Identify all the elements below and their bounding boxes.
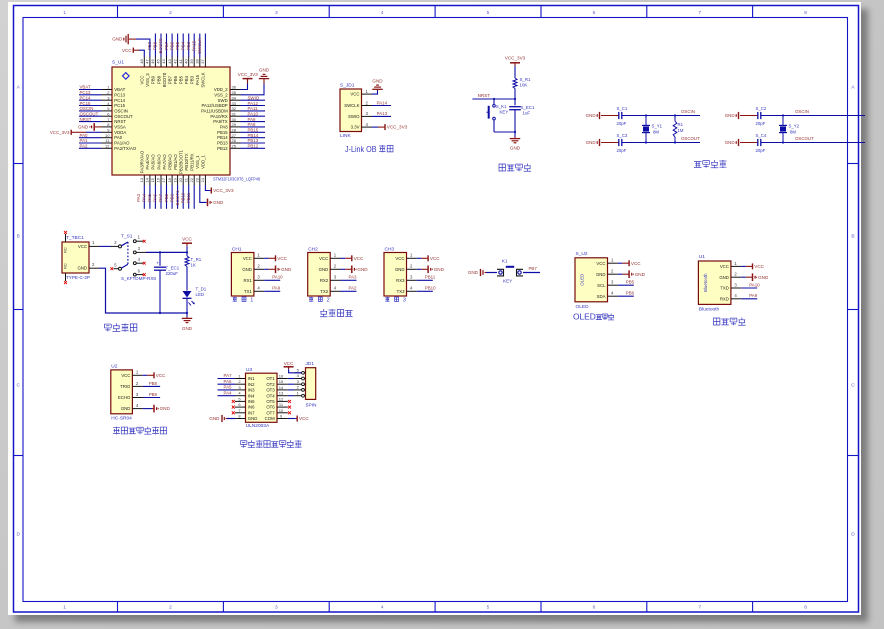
svg-text:PC14: PC14 [80, 95, 92, 100]
svg-text:GND: GND [259, 68, 270, 73]
svg-text:2: 2 [327, 297, 330, 303]
svg-text:2: 2 [334, 264, 337, 269]
svg-text:32: 32 [232, 106, 237, 111]
svg-text:36: 36 [232, 85, 237, 90]
svg-text:VCC_3V3: VCC_3V3 [50, 130, 70, 135]
svg-text:PA2/TX/AO: PA2/TX/AO [114, 146, 137, 151]
svg-text:S_C3: S_C3 [617, 133, 628, 138]
svg-text:VCC: VCC [299, 416, 309, 421]
svg-text:PB6: PB6 [173, 75, 178, 84]
svg-text:IN5: IN5 [248, 399, 255, 404]
svg-text:4: 4 [297, 373, 300, 378]
svg-text:Bluetooth: Bluetooth [703, 273, 708, 292]
svg-text:15: 15 [150, 177, 155, 182]
svg-text:1: 1 [63, 605, 66, 611]
svg-text:3: 3 [366, 111, 369, 116]
svg-text:TYPE-C-2P: TYPE-C-2P [66, 275, 90, 280]
svg-text:1: 1 [250, 297, 253, 303]
svg-text:PA8: PA8 [248, 122, 257, 127]
svg-text:PB6: PB6 [169, 41, 174, 50]
svg-text:PA5/AO: PA5/AO [151, 154, 156, 170]
svg-text:PB15: PB15 [248, 128, 259, 133]
svg-text:PA4/AO: PA4/AO [145, 154, 150, 170]
svg-text:PB11/RX: PB11/RX [190, 153, 195, 170]
svg-text:7: 7 [698, 10, 701, 16]
svg-text:OLED: OLED [573, 312, 596, 322]
svg-text:4: 4 [334, 286, 337, 291]
svg-text:OSCOUT: OSCOUT [681, 136, 700, 141]
svg-text:PB1: PB1 [169, 193, 174, 202]
svg-text:PA9/TX: PA9/TX [213, 119, 228, 124]
svg-text:GND: GND [121, 406, 131, 411]
svg-text:PB13: PB13 [248, 138, 259, 143]
svg-text:28: 28 [232, 128, 237, 133]
svg-text:SWCLK: SWCLK [197, 38, 202, 54]
svg-text:PB10/TX: PB10/TX [184, 153, 189, 170]
svg-text:LED: LED [196, 292, 205, 297]
svg-text:VCC: VCC [122, 48, 132, 53]
svg-text:1: 1 [366, 89, 369, 94]
svg-text:BOOT0: BOOT0 [158, 38, 163, 53]
svg-text:A: A [17, 84, 21, 90]
svg-text:NRST: NRST [80, 117, 92, 122]
svg-text:OT1: OT1 [266, 376, 275, 381]
svg-text:T_R1: T_R1 [191, 257, 202, 262]
svg-text:PB5: PB5 [179, 75, 184, 84]
svg-text:PA11: PA11 [248, 106, 259, 111]
svg-text:PA0: PA0 [114, 135, 122, 140]
svg-text:40: 40 [183, 59, 188, 64]
svg-text:K1: K1 [502, 259, 508, 264]
svg-text:ECHO: ECHO [118, 395, 131, 400]
svg-text:PA9: PA9 [272, 286, 281, 291]
svg-text:VCC: VCC [754, 264, 764, 269]
svg-text:PB13: PB13 [217, 141, 228, 146]
svg-text:VSS_2: VSS_2 [214, 92, 228, 97]
svg-text:8: 8 [804, 10, 807, 16]
svg-text:D: D [16, 531, 20, 537]
svg-text:SWD: SWD [218, 98, 228, 103]
svg-text:S_K1: S_K1 [496, 104, 507, 109]
svg-text:PA11/USBDM: PA11/USBDM [201, 109, 228, 114]
svg-text:PB7: PB7 [167, 75, 172, 84]
svg-text:IN2: IN2 [248, 382, 255, 387]
svg-text:PA12: PA12 [248, 101, 259, 106]
svg-text:GND: GND [586, 113, 596, 118]
svg-text:3: 3 [297, 379, 300, 384]
svg-text:S_C2: S_C2 [756, 106, 767, 111]
svg-text:OT4: OT4 [266, 393, 275, 398]
svg-text:GND: GND [182, 326, 193, 331]
svg-text:CH2: CH2 [308, 247, 318, 253]
svg-text:BOOT1: BOOT1 [175, 190, 180, 205]
svg-text:13: 13 [139, 177, 144, 182]
svg-text:VCC: VCC [140, 75, 145, 84]
svg-text:4: 4 [381, 605, 384, 611]
svg-text:3: 3 [275, 605, 278, 611]
svg-text:12: 12 [279, 396, 284, 401]
svg-text:GND: GND [596, 272, 606, 277]
svg-text:PB9: PB9 [149, 392, 158, 397]
svg-text:5PIN: 5PIN [306, 402, 317, 408]
svg-text:5: 5 [487, 10, 490, 16]
svg-text:11: 11 [279, 402, 284, 407]
svg-text:S_U1: S_U1 [112, 60, 124, 66]
svg-text:PB7: PB7 [164, 41, 169, 50]
svg-text:1: 1 [257, 253, 260, 258]
svg-text:47: 47 [145, 59, 150, 64]
svg-text:PB9: PB9 [151, 75, 156, 84]
svg-text:S_KFTDMP-RX8: S_KFTDMP-RX8 [121, 276, 156, 281]
svg-text:7: 7 [238, 408, 241, 413]
svg-text:PA3: PA3 [136, 193, 141, 202]
svg-text:PA5: PA5 [224, 385, 233, 390]
svg-text:4: 4 [611, 291, 614, 296]
svg-text:VSS_3: VSS_3 [145, 73, 150, 87]
svg-text:4: 4 [381, 10, 384, 16]
svg-text:1: 1 [334, 253, 337, 258]
svg-text:VCC: VCC [395, 256, 404, 261]
svg-text:4: 4 [366, 122, 369, 127]
svg-text:8: 8 [804, 605, 807, 611]
svg-text:VDDA: VDDA [114, 130, 126, 135]
svg-text:VCC: VCC [121, 373, 130, 378]
svg-text:PB5: PB5 [626, 280, 635, 285]
svg-text:GND: GND [510, 146, 521, 151]
svg-text:PC15: PC15 [114, 103, 125, 108]
svg-text:R1: R1 [678, 122, 684, 127]
svg-text:35: 35 [232, 90, 237, 95]
svg-text:OT5: OT5 [266, 399, 275, 404]
svg-text:VCC: VCC [350, 92, 359, 97]
svg-text:OSCIN: OSCIN [795, 109, 809, 114]
svg-text:S_C4: S_C4 [756, 133, 767, 138]
svg-text:3: 3 [734, 282, 737, 287]
svg-text:39: 39 [189, 59, 194, 64]
svg-text:RX3: RX3 [396, 278, 405, 283]
svg-text:5: 5 [114, 262, 117, 267]
svg-text:2: 2 [169, 605, 172, 611]
svg-text:3: 3 [138, 246, 141, 251]
svg-text:4: 4 [136, 403, 139, 408]
svg-text:VCC: VCC [277, 256, 287, 261]
svg-text:10K: 10K [520, 83, 528, 88]
svg-text:VCC: VCC [430, 256, 440, 261]
svg-text:S_Y2: S_Y2 [789, 124, 800, 129]
svg-text:OT6: OT6 [266, 405, 275, 410]
svg-text:13: 13 [279, 391, 284, 396]
svg-text:GND: GND [242, 267, 252, 272]
svg-text:VCC: VCC [720, 264, 729, 269]
svg-text:17: 17 [161, 177, 166, 182]
svg-text:PA7: PA7 [158, 193, 163, 202]
svg-text:3: 3 [611, 280, 614, 285]
svg-text:PA10/RX: PA10/RX [210, 114, 227, 119]
svg-text:8M: 8M [790, 130, 796, 135]
svg-text:PA8: PA8 [220, 125, 228, 130]
svg-text:U1: U1 [699, 254, 705, 260]
svg-text:S_EC1: S_EC1 [521, 105, 535, 110]
svg-text:OSCOUT: OSCOUT [114, 114, 133, 119]
svg-text:16: 16 [279, 374, 284, 379]
svg-text:46: 46 [150, 59, 155, 64]
svg-text:GND: GND [395, 267, 405, 272]
svg-text:OSCIN: OSCIN [80, 106, 94, 111]
svg-text:KEY: KEY [500, 110, 509, 115]
svg-text:2: 2 [734, 272, 737, 277]
svg-text:48: 48 [139, 59, 144, 64]
svg-text:5: 5 [297, 368, 300, 373]
svg-text:PB6: PB6 [626, 291, 635, 296]
svg-text:14: 14 [279, 385, 284, 390]
svg-text:GND: GND [78, 125, 89, 130]
svg-text:VSS_1: VSS_1 [195, 155, 200, 169]
svg-text:STM32F103C8T6_LQFP48: STM32F103C8T6_LQFP48 [213, 177, 260, 183]
svg-text:PB10: PB10 [425, 286, 436, 291]
svg-text:IN3: IN3 [248, 388, 255, 393]
svg-text:GND: GND [112, 37, 123, 42]
svg-text:9: 9 [107, 128, 110, 133]
svg-text:HC-SR04: HC-SR04 [111, 416, 132, 422]
svg-text:2: 2 [366, 100, 369, 105]
svg-text:OSCIN: OSCIN [681, 109, 695, 114]
svg-text:14: 14 [145, 177, 150, 182]
svg-text:44: 44 [161, 59, 166, 64]
svg-text:OT3: OT3 [266, 388, 275, 393]
svg-text:PA3/RX/AO: PA3/RX/AO [140, 150, 145, 173]
svg-text:41: 41 [178, 59, 183, 64]
svg-text:1M: 1M [678, 128, 684, 133]
svg-text:GND: GND [357, 267, 368, 272]
svg-text:SWCLK: SWCLK [201, 72, 206, 87]
svg-text:PB0/AO: PB0/AO [167, 154, 172, 170]
svg-text:2: 2 [611, 269, 614, 274]
svg-text:PB11: PB11 [186, 192, 191, 203]
svg-text:8M: 8M [653, 130, 659, 135]
svg-text:OSCOUT: OSCOUT [80, 112, 99, 117]
svg-text:S_C1: S_C1 [617, 106, 628, 111]
svg-text:S_R1: S_R1 [520, 77, 532, 82]
svg-text:26: 26 [232, 138, 237, 143]
svg-text:PA5: PA5 [147, 193, 152, 202]
svg-text:11: 11 [105, 138, 110, 143]
svg-text:27: 27 [232, 133, 237, 138]
svg-text:GND: GND [209, 416, 220, 421]
svg-text:GND: GND [725, 113, 735, 118]
svg-text:24: 24 [200, 177, 205, 182]
svg-text:T_D1: T_D1 [196, 287, 207, 292]
svg-text:8: 8 [238, 414, 241, 419]
svg-text:PC13: PC13 [114, 92, 125, 97]
svg-text:PA6/AO: PA6/AO [156, 154, 161, 170]
svg-text:GND: GND [77, 266, 87, 271]
svg-text:Bluetooth: Bluetooth [699, 307, 720, 313]
svg-text:2: 2 [238, 379, 241, 384]
svg-text:VCC: VCC [78, 244, 87, 249]
svg-text:U3: U3 [246, 367, 252, 373]
svg-text:GND: GND [281, 267, 292, 272]
svg-text:22: 22 [189, 177, 194, 182]
svg-text:3: 3 [410, 275, 413, 280]
svg-text:RXD: RXD [720, 296, 729, 301]
svg-text:1: 1 [611, 258, 614, 263]
svg-text:3: 3 [136, 392, 139, 397]
svg-text:23: 23 [195, 177, 200, 182]
svg-text:IN7: IN7 [248, 410, 255, 415]
svg-text:PC14: PC14 [114, 98, 125, 103]
svg-text:PB4: PB4 [180, 41, 185, 50]
svg-text:VBAT: VBAT [80, 85, 91, 90]
svg-text:CH1: CH1 [232, 247, 242, 253]
svg-text:PA0: PA0 [80, 133, 89, 138]
svg-text:OT7: OT7 [266, 410, 275, 415]
svg-text:1: 1 [238, 374, 241, 379]
svg-text:1uF: 1uF [523, 111, 531, 116]
svg-text:2: 2 [169, 10, 172, 16]
svg-text:S_Y1: S_Y1 [652, 124, 663, 129]
svg-text:VBAT: VBAT [114, 87, 125, 92]
svg-text:38: 38 [195, 59, 200, 64]
svg-text:VCC: VCC [319, 256, 328, 261]
svg-text:OT2: OT2 [266, 382, 275, 387]
svg-text:PA9: PA9 [749, 293, 758, 298]
svg-text:GND: GND [719, 275, 729, 280]
svg-text:PA6: PA6 [153, 193, 158, 202]
svg-text:VDD_2: VDD_2 [214, 87, 228, 92]
svg-text:GND: GND [248, 416, 258, 421]
svg-text:D: D [851, 531, 855, 537]
svg-text:20pF: 20pF [756, 121, 766, 126]
svg-text:3: 3 [238, 385, 241, 390]
svg-text:VDD_1: VDD_1 [201, 154, 206, 168]
svg-text:NRST: NRST [114, 119, 126, 124]
svg-text:PA9: PA9 [248, 117, 257, 122]
svg-text:1: 1 [92, 240, 95, 245]
svg-text:IN1: IN1 [248, 376, 255, 381]
svg-text:5: 5 [238, 396, 241, 401]
svg-text:OLED: OLED [576, 304, 590, 310]
svg-text:4: 4 [138, 257, 141, 262]
svg-text:NC: NC [64, 247, 68, 253]
svg-text:37: 37 [200, 59, 205, 64]
svg-text:VSSA: VSSA [114, 125, 126, 130]
svg-text:GND: GND [319, 267, 329, 272]
svg-text:PB14: PB14 [217, 135, 228, 140]
svg-text:1K: 1K [191, 263, 196, 268]
svg-text:TRIG: TRIG [120, 384, 131, 389]
svg-text:1: 1 [410, 253, 413, 258]
svg-text:3: 3 [257, 275, 260, 280]
svg-text:4: 4 [257, 286, 260, 291]
svg-text:VCC_3V3: VCC_3V3 [387, 125, 408, 130]
svg-text:NC: NC [64, 263, 68, 269]
svg-text:4: 4 [238, 391, 241, 396]
svg-text:PB1/AO: PB1/AO [173, 154, 178, 170]
svg-text:6: 6 [138, 268, 141, 273]
svg-text:TXD: TXD [720, 286, 729, 291]
svg-text:IN4: IN4 [248, 393, 255, 398]
svg-text:21: 21 [183, 177, 188, 182]
svg-text:18: 18 [167, 177, 172, 182]
svg-text:BOOT0: BOOT0 [162, 72, 167, 87]
svg-text:3: 3 [275, 10, 278, 16]
svg-text:SCL: SCL [597, 283, 606, 288]
svg-text:20: 20 [178, 177, 183, 182]
svg-text:PB4: PB4 [184, 75, 189, 84]
svg-text:VCC_3V3: VCC_3V3 [238, 72, 259, 77]
svg-text:3.3V: 3.3V [351, 125, 360, 130]
svg-text:PA14: PA14 [377, 100, 388, 105]
svg-text:VCC: VCC [596, 261, 605, 266]
svg-text:6: 6 [593, 605, 596, 611]
svg-text:KEY: KEY [503, 279, 512, 284]
svg-text:10: 10 [279, 408, 284, 413]
svg-text:VCC: VCC [243, 256, 252, 261]
svg-text:6: 6 [238, 402, 241, 407]
svg-text:T_TBC1: T_TBC1 [66, 235, 84, 241]
svg-text:1: 1 [107, 85, 110, 90]
svg-text:45: 45 [156, 59, 161, 64]
svg-text:U2: U2 [111, 363, 117, 369]
svg-text:9: 9 [280, 414, 283, 419]
svg-text:PB11: PB11 [425, 275, 436, 280]
svg-text:T_S1: T_S1 [121, 234, 133, 240]
svg-text:PC15: PC15 [80, 101, 92, 106]
svg-text:VCC_3V3: VCC_3V3 [213, 188, 234, 193]
svg-text:2: 2 [410, 264, 413, 269]
svg-text:20pF: 20pF [617, 148, 627, 153]
svg-text:25: 25 [232, 144, 237, 149]
svg-text:GND: GND [758, 275, 769, 280]
svg-text:1: 1 [734, 261, 737, 266]
svg-text:+: + [157, 261, 160, 266]
svg-text:30: 30 [232, 117, 237, 122]
svg-text:SWIO: SWIO [248, 95, 260, 100]
svg-text:PA10: PA10 [248, 112, 259, 117]
svg-text:VCC: VCC [156, 373, 166, 378]
svg-text:VCC: VCC [631, 261, 641, 266]
svg-text:RX1: RX1 [244, 278, 253, 283]
svg-text:20pF: 20pF [617, 121, 627, 126]
svg-text:B: B [851, 233, 854, 239]
svg-text:6: 6 [593, 10, 596, 16]
svg-text:PB15: PB15 [217, 130, 228, 135]
svg-text:7: 7 [698, 605, 701, 611]
svg-text:PB2/BOOT1: PB2/BOOT1 [179, 149, 184, 173]
svg-text:OLED: OLED [580, 274, 585, 286]
svg-text:PA15: PA15 [195, 74, 200, 85]
svg-text:33: 33 [232, 101, 237, 106]
svg-text:B: B [17, 233, 20, 239]
svg-text:A: A [851, 84, 855, 90]
svg-text:2: 2 [107, 90, 110, 95]
svg-text:PA10: PA10 [749, 282, 760, 287]
svg-text:PA6: PA6 [224, 379, 233, 384]
svg-text:29: 29 [232, 122, 237, 127]
svg-text:GND: GND [725, 140, 735, 145]
svg-text:PB12: PB12 [248, 144, 259, 149]
svg-text:PA3: PA3 [349, 275, 358, 280]
svg-text:3: 3 [107, 95, 110, 100]
svg-text:ULN2003A: ULN2003A [246, 423, 270, 429]
svg-text:COM: COM [265, 416, 275, 421]
svg-text:PB14: PB14 [248, 133, 259, 138]
svg-text:GND: GND [468, 270, 479, 275]
svg-text:SDA: SDA [597, 294, 606, 299]
svg-text:PB12: PB12 [217, 146, 228, 151]
svg-text:2: 2 [114, 240, 117, 245]
svg-text:43: 43 [167, 59, 172, 64]
